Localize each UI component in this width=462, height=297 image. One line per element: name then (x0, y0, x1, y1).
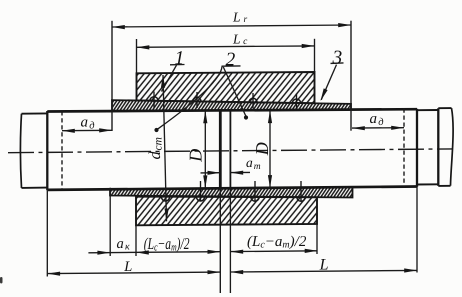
weld dome top 3 (249, 98, 257, 102)
right stub top (417, 109, 438, 111)
weld dome top 4 (292, 99, 300, 103)
dimension a_t (201, 172, 221, 174)
extension line hub left top (136, 39, 138, 73)
dimension L left line (47, 272, 220, 274)
extension bottom hub right (316, 224, 318, 254)
svg-text:L: L (319, 257, 329, 274)
svg-text:1: 1 (175, 48, 185, 69)
extension bottom band left (109, 188, 111, 256)
leader dot 2 right (244, 115, 248, 119)
shaft outline bottom (47, 187, 417, 190)
dimension Lc line (137, 46, 315, 47)
svg-text:ак: ак (117, 236, 130, 253)
extension line sleeve left end (111, 21, 113, 131)
extension below right face (229, 188, 231, 293)
dimension L right line (230, 270, 417, 272)
left shaft end face (219, 111, 222, 189)
dimension row1 left line (88, 252, 220, 253)
weld dome top 2 (193, 97, 201, 101)
svg-text:ад: ад (81, 115, 95, 132)
svg-text:D: D (186, 149, 206, 163)
dimension a_d left (62, 129, 112, 131)
weld dome bottom 3 (251, 197, 259, 201)
left stub bottom (22, 187, 48, 189)
right hidden dashed line (403, 109, 405, 187)
bottom hub (136, 197, 317, 226)
extension left shoulder down (46, 190, 48, 276)
left break wavy (20, 114, 21, 188)
leader label 2 left (157, 67, 222, 130)
svg-text:(Lс−ат)/2: (Lс−ат)/2 (144, 234, 190, 254)
svg-text:Lr: Lr (232, 9, 248, 24)
right far top (438, 107, 451, 109)
scan speck bottom left (0, 277, 3, 284)
svg-text:Lc: Lc (232, 31, 248, 46)
right stub bottom (417, 183, 438, 185)
svg-text:L: L (123, 259, 132, 275)
shaft outline top (47, 109, 417, 111)
leader dot 2 left (154, 128, 158, 132)
dimension D right vertical (269, 110, 271, 188)
extension line hub right top (314, 39, 316, 72)
svg-text:dст: dст (145, 137, 165, 159)
svg-text:3: 3 (332, 47, 343, 68)
centerline (8, 149, 453, 153)
top hub (item 1 body) (137, 72, 315, 103)
leader label 2 right (223, 67, 246, 116)
svg-text:D: D (252, 142, 272, 156)
extension bottom hub left (135, 225, 137, 256)
weld dome bottom 4 (297, 197, 305, 201)
left stub top (22, 112, 48, 114)
top sleeve band (item 3) (112, 100, 351, 111)
extension below left face (219, 188, 221, 293)
left shoulder (46, 111, 48, 190)
right break wavy (451, 108, 454, 186)
extension right shoulder down (416, 187, 418, 273)
dimension d_st vertical (163, 75, 167, 221)
svg-text:ат: ат (246, 155, 261, 172)
weld dome bottom 2 (196, 197, 204, 201)
right far bottom (438, 185, 450, 187)
bottom sleeve band (110, 187, 353, 198)
dimension Lg line (112, 25, 351, 27)
right shaft end face (229, 110, 231, 188)
leader label 3 (321, 65, 336, 100)
right step face (437, 108, 439, 186)
extension line sleeve right end (350, 21, 352, 131)
svg-text:(Lс−ат)/2: (Lс−ат)/2 (247, 234, 307, 251)
weld dome bottom 1 (161, 197, 169, 201)
leader label 1 (162, 65, 177, 91)
dimension a_d right (352, 127, 404, 129)
dimension D left vertical (204, 111, 206, 189)
dimension row1 right line (230, 250, 317, 253)
weld dome top 1 (150, 97, 158, 101)
svg-text:2: 2 (226, 50, 236, 71)
right shoulder (416, 109, 418, 187)
svg-text:ад: ад (370, 111, 384, 128)
left hidden dashed line (61, 111, 63, 189)
